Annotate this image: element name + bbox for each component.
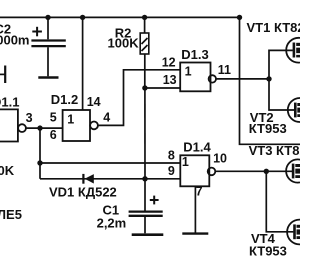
junction: C2 to rail <box>45 15 50 20</box>
svg-text:3: 3 <box>26 111 33 125</box>
resistor R2 <box>140 17 149 88</box>
svg-text:D1.4: D1.4 <box>183 139 211 154</box>
junction: R2 to pin 13 node <box>142 85 147 90</box>
svg-text:КТ953: КТ953 <box>249 121 287 136</box>
wire: top +V power rail <box>0 16 240 18</box>
wire: down to VT4 base <box>266 171 293 232</box>
svg-text:2,2m: 2,2m <box>97 215 127 230</box>
svg-text:К561ЛЕ5: К561ЛЕ5 <box>0 207 22 222</box>
svg-text:100K: 100K <box>0 163 15 178</box>
wire: D1.4 output to VT3/VT4 bases <box>215 170 266 172</box>
svg-text:D1.1: D1.1 <box>0 94 19 109</box>
NOR gate D1.1 (cut at left edge) <box>0 109 26 141</box>
junction: VD1 / R2 / C1 / pin 9 node <box>142 176 147 181</box>
NOR gate D1.2 <box>63 110 98 141</box>
wire: up to VT1 base <box>269 50 293 79</box>
wire: +V feed down right side <box>240 17 301 144</box>
wire: D1.4 pin 7 to ground <box>194 186 196 232</box>
ground (pin 7) <box>182 232 208 234</box>
capacitor C1 <box>129 196 163 234</box>
junction: node at D1.1 output <box>37 125 42 130</box>
svg-text:8: 8 <box>168 149 175 163</box>
wire: to D1.3 pin 13 <box>145 87 180 89</box>
wire: to D1.4 pin 8 <box>40 162 180 164</box>
svg-text:6: 6 <box>50 128 57 142</box>
svg-text:9: 9 <box>168 164 175 178</box>
wire: node down to VD1 node <box>144 88 146 179</box>
svg-text:1: 1 <box>182 155 189 169</box>
transistor VT4 <box>287 220 312 245</box>
svg-text:VD1 КД522: VD1 КД522 <box>49 184 117 199</box>
NOR gate D1.3 <box>180 63 216 92</box>
wire: D1.2 pin 14 to rail <box>82 17 84 110</box>
svg-text:13: 13 <box>163 73 177 87</box>
svg-text:5: 5 <box>50 111 57 125</box>
svg-text:4: 4 <box>103 111 110 125</box>
wire: D1.2 output to D1.3 pin 12 <box>98 70 180 126</box>
svg-text:7: 7 <box>196 185 203 199</box>
svg-text:1: 1 <box>67 112 74 126</box>
wire: VD1 line to D1.4 pin 9 <box>40 178 180 180</box>
NOR gate D1.4 <box>180 155 215 186</box>
diode VD1 <box>83 174 93 184</box>
svg-text:D1.3: D1.3 <box>181 47 208 62</box>
junction: rail end to VT feed line <box>237 15 242 20</box>
wire: D1.1 output to D1.2 inputs <box>26 127 63 129</box>
svg-text:11: 11 <box>218 63 231 77</box>
svg-text:VT3 КТ829: VT3 КТ829 <box>249 143 300 158</box>
svg-text:100K: 100K <box>108 36 140 51</box>
svg-text:VT1 КТ829: VT1 КТ829 <box>247 20 301 35</box>
junction: R2 to rail <box>142 15 147 20</box>
wire: D1.3 output to VT1/VT2 bases <box>216 78 269 80</box>
junction: base tie node (VT3/VT4) <box>264 169 269 174</box>
wire: down to VT2 base <box>269 79 294 110</box>
svg-text:12: 12 <box>162 56 176 70</box>
wire: node down to C1 <box>144 179 146 211</box>
junction: base tie node <box>266 76 271 81</box>
capacitor fragment at left edge <box>0 66 5 84</box>
wire: to VT3 base <box>266 170 292 172</box>
svg-text:КТ953: КТ953 <box>249 243 287 258</box>
ground (C1) <box>132 233 164 236</box>
svg-text:D1.2: D1.2 <box>51 92 78 107</box>
junction: branch to pin 8 <box>37 160 42 165</box>
transistor VT3 <box>286 159 309 182</box>
svg-text:10: 10 <box>213 151 227 165</box>
svg-text:1000m: 1000m <box>0 32 29 47</box>
capacitor C2 <box>31 17 65 76</box>
ground (C2) <box>38 76 58 79</box>
svg-text:14: 14 <box>87 95 101 109</box>
svg-text:1: 1 <box>185 64 192 78</box>
junction: D1.2 pin 14 to rail <box>80 15 85 20</box>
transistor VT1 <box>286 38 311 63</box>
wire: node down to VD1 line <box>39 128 41 179</box>
transistor VT2 <box>288 98 312 122</box>
